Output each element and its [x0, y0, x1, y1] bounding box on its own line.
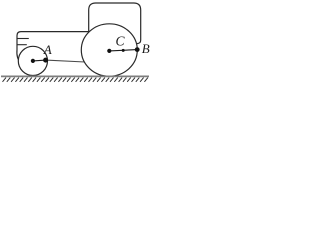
rear wheel radius line	[109, 50, 137, 51]
rear wheel (large ellipse)	[81, 24, 137, 76]
engine hood outline with body line	[17, 32, 92, 62]
svg-text:B: B	[142, 41, 150, 56]
front wheel radius line	[33, 59, 46, 62]
front wheel (small circle)	[18, 46, 47, 75]
mid-radius point C dot	[122, 49, 125, 52]
tractor cab (rounded rectangle)	[89, 3, 141, 44]
ground hatching	[3, 78, 148, 82]
rim point B dot	[135, 47, 140, 52]
background	[0, 0, 150, 84]
svg-text:A: A	[43, 42, 52, 57]
link bar from A toward rear wheel	[46, 60, 86, 62]
front wheel center dot	[31, 59, 35, 63]
ground line	[1, 75, 149, 77]
rim point A dot	[43, 58, 48, 63]
svg-text:C: C	[116, 34, 126, 49]
grille bar 2	[17, 44, 27, 46]
grille bar 1	[17, 38, 29, 40]
rear wheel center dot	[107, 49, 111, 53]
